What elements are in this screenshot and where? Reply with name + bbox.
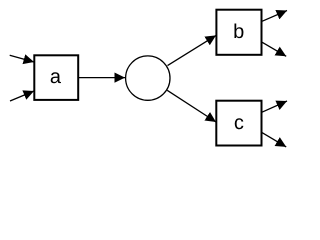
wire: arrow from circle to box c bbox=[167, 90, 216, 122]
box c bbox=[216, 101, 261, 146]
box b bbox=[216, 10, 261, 55]
label a bbox=[51, 72, 61, 83]
wire: input arrow 1 into box a (upper) bbox=[10, 55, 34, 62]
label c bbox=[235, 118, 244, 129]
wire: output arrow from box b (lower) bbox=[262, 42, 286, 56]
wire: input arrow 2 into box a (lower) bbox=[10, 91, 34, 101]
box a bbox=[34, 55, 78, 100]
wire: arrow from box a to circle bbox=[79, 77, 125, 79]
wire: output arrow from box b (upper) bbox=[262, 11, 287, 22]
circle node bbox=[126, 56, 170, 100]
wire: output arrow from box c (lower) bbox=[262, 133, 286, 147]
wire: arrow from circle to box b bbox=[168, 35, 217, 65]
wire: output arrow from box c (upper) bbox=[262, 101, 287, 112]
label b bbox=[234, 23, 243, 38]
